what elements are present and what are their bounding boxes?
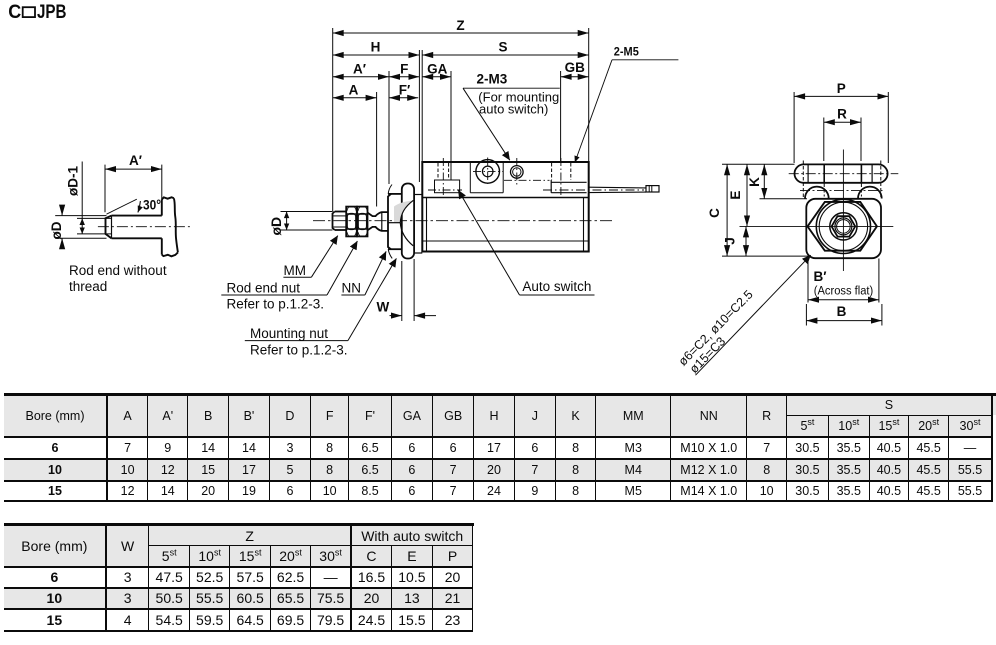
svg-text:A′: A′ xyxy=(353,61,366,76)
svg-text:W: W xyxy=(377,300,390,315)
svg-text:Rod end without: Rod end without xyxy=(69,263,167,278)
svg-text:C: C xyxy=(707,208,722,218)
svg-text:K: K xyxy=(747,177,762,187)
svg-text:Z: Z xyxy=(456,18,464,33)
svg-text:JPB: JPB xyxy=(37,1,67,23)
svg-text:F: F xyxy=(400,61,408,76)
svg-text:P: P xyxy=(837,81,846,96)
svg-text:A′: A′ xyxy=(129,153,142,168)
svg-text:E: E xyxy=(728,191,743,200)
svg-text:S: S xyxy=(498,40,507,55)
svg-text:A: A xyxy=(349,82,359,97)
svg-text:2-M5: 2-M5 xyxy=(614,46,640,58)
svg-text:F′: F′ xyxy=(399,82,410,97)
svg-text:B′: B′ xyxy=(814,269,827,284)
svg-text:øD: øD xyxy=(49,221,64,239)
svg-text:J: J xyxy=(723,237,738,245)
svg-text:GB: GB xyxy=(565,60,586,75)
svg-text:NN: NN xyxy=(342,281,362,296)
svg-text:GA: GA xyxy=(427,61,448,76)
svg-text:H: H xyxy=(371,40,381,55)
svg-text:Refer to p.1.2-3.: Refer to p.1.2-3. xyxy=(227,297,325,312)
svg-text:Auto switch: Auto switch xyxy=(522,279,591,294)
svg-text:C: C xyxy=(8,1,21,23)
svg-text:(Across flat): (Across flat) xyxy=(814,286,874,298)
svg-text:øD: øD xyxy=(268,217,284,236)
svg-text:Mounting nut: Mounting nut xyxy=(250,326,328,341)
svg-text:R: R xyxy=(837,107,847,122)
svg-text:øD-1: øD-1 xyxy=(66,166,81,196)
svg-text:2-M3: 2-M3 xyxy=(477,72,508,87)
svg-text:Rod end nut: Rod end nut xyxy=(227,281,301,296)
svg-text:auto switch): auto switch) xyxy=(479,102,548,117)
svg-text:Refer to p.1.2-3.: Refer to p.1.2-3. xyxy=(250,343,348,358)
svg-text:30°: 30° xyxy=(143,197,161,212)
svg-text:B: B xyxy=(837,304,847,319)
svg-text:thread: thread xyxy=(69,279,107,294)
svg-text:MM: MM xyxy=(284,263,307,278)
